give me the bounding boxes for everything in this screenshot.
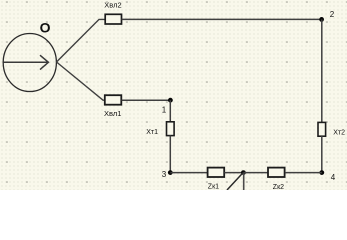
generator G (system source circle) <box>3 34 56 92</box>
wire: node 2 to resistor Хт2 <box>321 19 323 123</box>
wire: Хвл2 to node 2 <box>122 18 322 20</box>
wire: fault junction to resistor Zк2 <box>243 172 268 174</box>
fault junction K <box>241 170 246 175</box>
source arrow head <box>40 55 48 69</box>
resistor Zк1 <box>208 168 225 177</box>
resistor Zк2 <box>268 168 285 177</box>
wire: Хвл1 to node 1 <box>122 99 171 101</box>
resistor Хт1 <box>167 122 175 136</box>
fault arrow barb <box>227 173 243 190</box>
wire: source to resistor Хвл1 <box>57 62 106 100</box>
wire: source to resistor Хвл2 <box>57 19 106 62</box>
svg-text:Хвл1: Хвл1 <box>104 109 121 118</box>
svg-text:Zк2: Zк2 <box>273 184 284 190</box>
resistor Хвл1 <box>105 95 122 105</box>
wire: node 1 to resistor Хт1 <box>169 100 171 122</box>
fault arrow shaft <box>243 173 245 190</box>
svg-text:3: 3 <box>162 170 167 179</box>
svg-text:4: 4 <box>331 173 336 182</box>
wire: Хт1 to node 3 <box>169 135 171 172</box>
wire: Хт2 to node 4 <box>321 136 323 173</box>
node 3 junction <box>168 170 173 175</box>
wire: Zк2 to node 4 <box>285 172 322 174</box>
svg-text:Хт2: Хт2 <box>333 129 345 136</box>
resistor Хвл2 <box>105 14 121 24</box>
wire: Zк1 to fault junction <box>224 172 243 174</box>
node 2 junction <box>319 17 324 22</box>
svg-text:Хвл2: Хвл2 <box>104 0 121 9</box>
node 4 junction <box>319 170 324 175</box>
svg-text:Хт1: Хт1 <box>146 129 158 136</box>
source arrow shaft <box>3 61 48 63</box>
svg-text:Zк1: Zк1 <box>208 184 219 191</box>
resistor Хт2 <box>318 122 326 136</box>
node 1 junction <box>168 98 173 103</box>
svg-text:1: 1 <box>162 106 167 115</box>
wire: node 3 to resistor Zк1 <box>170 172 208 174</box>
svg-text:2: 2 <box>330 10 335 19</box>
svg-text:O: O <box>40 20 51 36</box>
